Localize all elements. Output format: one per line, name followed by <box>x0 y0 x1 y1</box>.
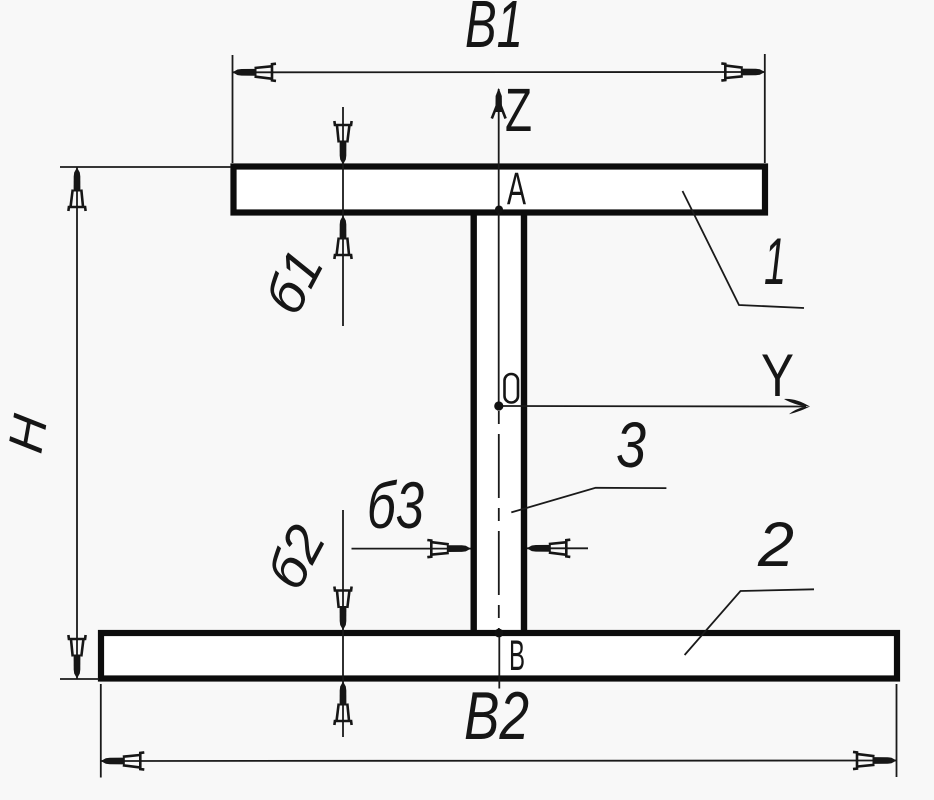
svg-text:1: 1 <box>764 224 786 298</box>
dimension d3 line left <box>352 548 471 550</box>
svg-text:2: 2 <box>757 510 794 580</box>
dimension d3 arrow right <box>527 540 571 557</box>
svg-text:б3: б3 <box>367 468 424 542</box>
Z axis arrowhead <box>492 88 506 119</box>
web 3 right wall <box>521 212 527 633</box>
dimension B1 extension left <box>232 55 234 163</box>
dimension d3 line right <box>527 547 588 549</box>
centerline stub below B <box>498 633 500 689</box>
svg-text:B1: B1 <box>465 0 523 62</box>
dimension B1 extension right <box>764 54 766 163</box>
svg-text:3: 3 <box>616 409 646 481</box>
dimension H arrow top <box>68 168 85 212</box>
svg-text:Z: Z <box>505 76 532 144</box>
dimension d1 line <box>342 107 344 326</box>
Y axis arrowhead <box>784 399 810 414</box>
dimension H extension bottom <box>60 678 99 680</box>
point O label <box>505 374 519 403</box>
top flange 1 <box>234 167 766 213</box>
svg-text:Y: Y <box>761 342 794 409</box>
Y axis line <box>499 405 806 408</box>
dimension B2 line <box>101 760 897 763</box>
leader 3 <box>511 488 666 513</box>
dimension d2 arrow upper <box>334 587 351 631</box>
point B dot <box>495 629 504 638</box>
dimension d2 arrow lower <box>334 682 351 726</box>
svg-text:A: A <box>507 163 526 214</box>
svg-text:B2: B2 <box>464 678 529 754</box>
web 3 fill <box>471 213 527 633</box>
Z axis line <box>498 89 500 406</box>
point O dot <box>494 401 503 410</box>
bottom flange 2 <box>101 633 897 679</box>
dimension B2 arrow right <box>853 752 897 769</box>
dimension H line <box>76 168 78 679</box>
dimension H extension top <box>60 166 231 168</box>
leader 2 <box>685 589 814 655</box>
leader 1 <box>683 191 805 308</box>
dimension d3 arrow left <box>427 540 471 557</box>
dimension B2 arrow left <box>101 752 145 769</box>
dimension d1 arrow lower <box>334 216 351 260</box>
dimension B2 extension left <box>100 684 102 778</box>
dimension B1 arrow right <box>721 63 765 80</box>
svg-text:B: B <box>509 632 525 680</box>
dimension H arrow bottom <box>68 635 85 679</box>
dimension B1 line <box>233 71 765 73</box>
dimension d2 line <box>342 510 344 737</box>
dimension B2 extension right <box>896 684 898 777</box>
Z axis dash-dot centerline <box>498 411 500 633</box>
web 3 left wall <box>471 212 477 633</box>
point A dot <box>495 206 503 214</box>
dimension B1 arrow left <box>233 64 277 81</box>
dimension d1 arrow upper <box>334 121 351 165</box>
